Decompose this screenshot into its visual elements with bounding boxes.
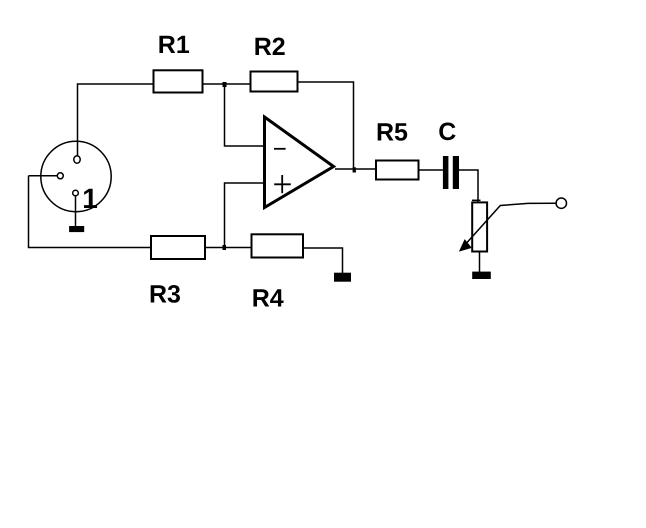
svg-text:R1: R1 — [158, 31, 190, 59]
svg-text:R3: R3 — [149, 281, 181, 309]
svg-text:C: C — [438, 118, 456, 146]
svg-text:R4: R4 — [252, 284, 284, 312]
svg-text:R2: R2 — [254, 33, 286, 61]
svg-text:R5: R5 — [376, 118, 408, 146]
svg-text:1: 1 — [82, 183, 98, 214]
